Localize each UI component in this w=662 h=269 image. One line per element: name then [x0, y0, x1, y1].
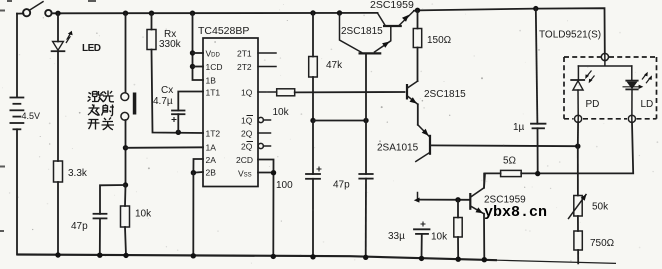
pin stub 1Q — [258, 91, 277, 93]
node X left — [310, 118, 315, 123]
potentiometer R8 50k — [569, 194, 587, 219]
node rail LED — [55, 252, 60, 257]
capacitor Cx 4.7u — [172, 111, 185, 123]
wire Vss — [258, 172, 274, 174]
wire button branch — [125, 13, 127, 92]
wire 100u to rail — [312, 179, 314, 258]
svg-text:1Q: 1Q — [241, 116, 253, 126]
wire nodeX horizontal — [313, 120, 366, 122]
svg-text:4.5V: 4.5V — [22, 111, 41, 121]
transistor Q2 2SC1959 — [378, 11, 415, 26]
node 47k top — [310, 10, 315, 15]
wire 10k leads — [457, 200, 459, 259]
node Vdd line top — [190, 11, 195, 16]
photodiode PD — [571, 66, 594, 115]
svg-text:Cx: Cx — [161, 85, 173, 96]
module U2 TOLD9521(S) dashed box — [564, 57, 657, 119]
pin label 2Qbar — [241, 142, 253, 152]
svg-text:2Q: 2Q — [241, 129, 253, 139]
node Rx top — [149, 11, 154, 16]
svg-text:10k: 10k — [135, 209, 152, 220]
node X right — [363, 118, 368, 123]
svg-text:ybx8.cn: ybx8.cn — [484, 204, 547, 221]
node 1u top — [533, 6, 538, 11]
node rail Vss — [271, 254, 276, 259]
terminal LD circle — [628, 115, 635, 122]
wire to 47p left — [100, 185, 126, 214]
node 150ohm top — [415, 8, 420, 13]
node Q5 base / 10k — [455, 197, 460, 202]
op-amp/IC U1 TC4528BP — [203, 38, 258, 187]
wire 50k drop — [577, 146, 579, 195]
transistor Q1 2SC1815 — [340, 13, 391, 121]
svg-text:50k: 50k — [592, 202, 609, 213]
svg-text:2CD: 2CD — [236, 155, 253, 165]
node rail 10k3 — [456, 257, 461, 262]
svg-text:33µ: 33µ — [388, 231, 405, 242]
svg-text:PD: PD — [586, 99, 600, 110]
wire 3.3k to rail — [57, 182, 59, 255]
node button top — [123, 11, 128, 16]
wire Vdd line — [193, 13, 204, 80]
wire 5ohm right to LD — [521, 123, 633, 174]
wire bottom rail thin — [497, 260, 616, 263]
svg-text:3.3k: 3.3k — [68, 168, 88, 179]
svg-text:2SA1015: 2SA1015 — [377, 143, 419, 154]
svg-text:47k: 47k — [326, 60, 343, 71]
wire 47k branch — [312, 13, 314, 57]
wire nodeX to 47p — [365, 121, 367, 175]
svg-text:2Q: 2Q — [241, 142, 253, 152]
transistor Q4 2SA1015 — [416, 125, 430, 162]
svg-text:2A: 2A — [206, 155, 217, 165]
resistor R9 750ohm — [574, 231, 582, 250]
terminal top circle — [601, 53, 608, 60]
node 5ohm-1u — [535, 171, 540, 176]
transistor Q3 2SC1815 — [407, 81, 418, 125]
capacitor C4 33u — [414, 222, 430, 259]
node Vdd — [190, 50, 195, 55]
wire 1u branch — [536, 9, 538, 124]
pin stub 2Q — [258, 132, 271, 134]
pin stub 2T2 — [258, 66, 276, 68]
node rail 47p2 — [363, 255, 368, 260]
svg-text:2SC1959: 2SC1959 — [370, 0, 414, 11]
battery B1 4.5V — [10, 98, 23, 130]
capacitor C2 100u — [306, 167, 322, 179]
capacitor C1 47p (bottom left) — [94, 214, 107, 219]
svg-text:330k: 330k — [159, 39, 182, 50]
node rail 47p — [97, 253, 102, 258]
svg-text:LED: LED — [82, 43, 101, 54]
wire 2A down — [193, 159, 203, 173]
pushbutton SW2 — [121, 93, 136, 121]
svg-text:LD: LD — [641, 99, 654, 110]
wire 2B — [193, 171, 203, 174]
capacitor C3 47p — [359, 174, 372, 179]
svg-text:1CD: 1CD — [206, 62, 223, 72]
wire 150ohm to Q3 collector — [417, 48, 419, 82]
svg-text:2B: 2B — [206, 168, 217, 178]
svg-text:10k: 10k — [273, 107, 290, 118]
terminal PD circle — [575, 115, 582, 122]
resistor R6 10k — [454, 218, 462, 238]
wire nodeX to 100u — [312, 121, 314, 175]
pin bubble 1Qbar — [258, 117, 270, 122]
wire left rail — [16, 14, 18, 97]
node Cx bottom — [176, 130, 181, 135]
node rail Q5e — [482, 257, 487, 262]
wire Rx branch — [151, 13, 153, 29]
switch S1 — [23, 2, 52, 17]
wire 50k to 750 — [577, 216, 579, 231]
svg-text:1T1: 1T1 — [206, 88, 221, 98]
svg-text:10k: 10k — [431, 232, 448, 243]
svg-text:2T1: 2T1 — [237, 49, 252, 59]
wire left rail lower — [16, 129, 18, 254]
wire LED to 3.3k — [57, 51, 59, 161]
wire LED branch — [57, 13, 59, 41]
wire bottom rail — [17, 255, 497, 261]
svg-text:4.7µ: 4.7µ — [153, 96, 173, 107]
wire button line to 10k — [124, 185, 127, 206]
node LED top — [55, 11, 60, 16]
svg-text:750Ω: 750Ω — [590, 238, 615, 249]
wire Q4 base to PD node — [431, 144, 578, 147]
resistor R2 10k (bottom left) — [121, 206, 130, 227]
wire Rx to 1T2 — [152, 50, 204, 134]
resistor R7 5ohm — [501, 170, 522, 176]
svg-text:5Ω: 5Ω — [503, 156, 517, 167]
node 1A junction — [123, 145, 128, 150]
wire 5ohm left — [484, 173, 501, 187]
scan artifacts — [0, 1, 96, 231]
laser diode LD — [623, 66, 653, 115]
node PD feedback — [575, 144, 580, 149]
resistor R4 47k — [309, 57, 318, 78]
svg-text:1Q: 1Q — [241, 88, 253, 98]
svg-text:2SC1815: 2SC1815 — [424, 89, 466, 100]
wire 47p to rail — [365, 179, 367, 259]
node 1CD — [190, 64, 195, 69]
svg-text:2SC1815: 2SC1815 — [341, 26, 383, 37]
svg-text:TOLD9521(S): TOLD9521(S) — [539, 30, 601, 41]
svg-text:47p: 47p — [333, 180, 350, 191]
node rail 100u — [310, 254, 315, 259]
wire 47p to rail — [99, 218, 101, 255]
node 47p-left junction — [123, 182, 128, 187]
wire Cx bottom stub — [177, 114, 179, 132]
wire button to 1A — [125, 120, 127, 185]
wire 47k to nodeX — [312, 77, 314, 121]
pin stub 2T1 — [258, 52, 276, 54]
node Q1 collector top — [337, 10, 342, 15]
wire top rail right — [414, 8, 605, 53]
LED D1 — [52, 31, 73, 51]
wire 750 to rail — [577, 250, 579, 263]
wire 2CD — [258, 160, 274, 258]
wire 10k to rail — [125, 227, 126, 256]
capacitor C5 1u — [531, 124, 546, 129]
wire top rail middle — [52, 12, 378, 14]
transistor Q5 2SC1959 — [470, 173, 484, 259]
resistor R3 10k (horizontal) — [277, 89, 295, 96]
node rail 2A2B — [191, 253, 196, 258]
pin bubble 2Qbar — [258, 143, 270, 148]
wire Vdd stub — [193, 52, 204, 54]
wire Cx top to 1T1 — [178, 92, 203, 111]
svg-text:1T2: 1T2 — [206, 129, 221, 139]
svg-text:1µ: 1µ — [513, 122, 525, 133]
resistor R1 3.3k — [54, 161, 63, 182]
wire PD terminal down — [577, 122, 579, 146]
node Vss-2CD — [271, 170, 276, 175]
wire 1Q to Q3 base — [295, 91, 405, 93]
svg-text:47p: 47p — [71, 221, 88, 232]
wire 1A — [126, 146, 204, 149]
svg-text:1A: 1A — [206, 143, 217, 153]
svg-text:150Ω: 150Ω — [427, 35, 452, 46]
node rail 10k — [123, 253, 128, 258]
svg-text:2T2: 2T2 — [237, 62, 252, 72]
resistor Rx 330k — [147, 30, 156, 50]
wire top rail left — [17, 13, 23, 15]
svg-text:VSS: VSS — [238, 169, 252, 179]
wire 1u to 5ohm line — [537, 128, 539, 173]
svg-text:VDD: VDD — [206, 49, 221, 59]
wire 1CD stub — [193, 66, 204, 68]
wire 150ohm drop — [417, 10, 419, 28]
label laser launch switch (Chinese) — [88, 91, 115, 130]
node rail 33u — [419, 256, 424, 261]
pin label 1Qbar — [241, 116, 253, 126]
resistor R5 150ohm — [413, 29, 421, 48]
wire module inner — [578, 60, 631, 66]
wire Q5 base with tick — [414, 193, 470, 203]
svg-text:TC4528BP: TC4528BP — [198, 25, 249, 37]
node 2A-2B — [191, 170, 196, 175]
svg-text:1B: 1B — [206, 76, 217, 86]
wire 2A2B to rail — [192, 173, 194, 257]
svg-text:100: 100 — [276, 180, 293, 191]
